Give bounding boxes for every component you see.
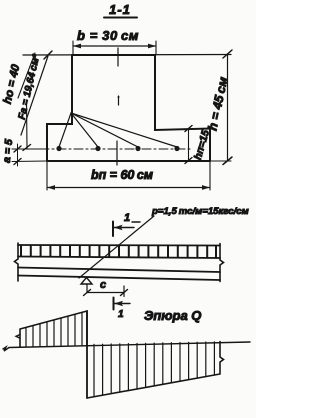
svg-text:1: 1 <box>118 309 124 320</box>
svg-text:Эпюра Q: Эпюра Q <box>144 308 201 323</box>
svg-text:bп = 60 см: bп = 60 см <box>91 168 153 182</box>
svg-text:c: c <box>100 279 106 291</box>
svg-text:b = 30 см: b = 30 см <box>77 28 139 43</box>
svg-text:1-1: 1-1 <box>109 2 131 17</box>
svg-text:1: 1 <box>124 212 130 224</box>
svg-text:p=1,5 тс/м=15кгс/см: p=1,5 тс/м=15кгс/см <box>151 206 249 217</box>
svg-text:a = 5: a = 5 <box>1 138 15 163</box>
